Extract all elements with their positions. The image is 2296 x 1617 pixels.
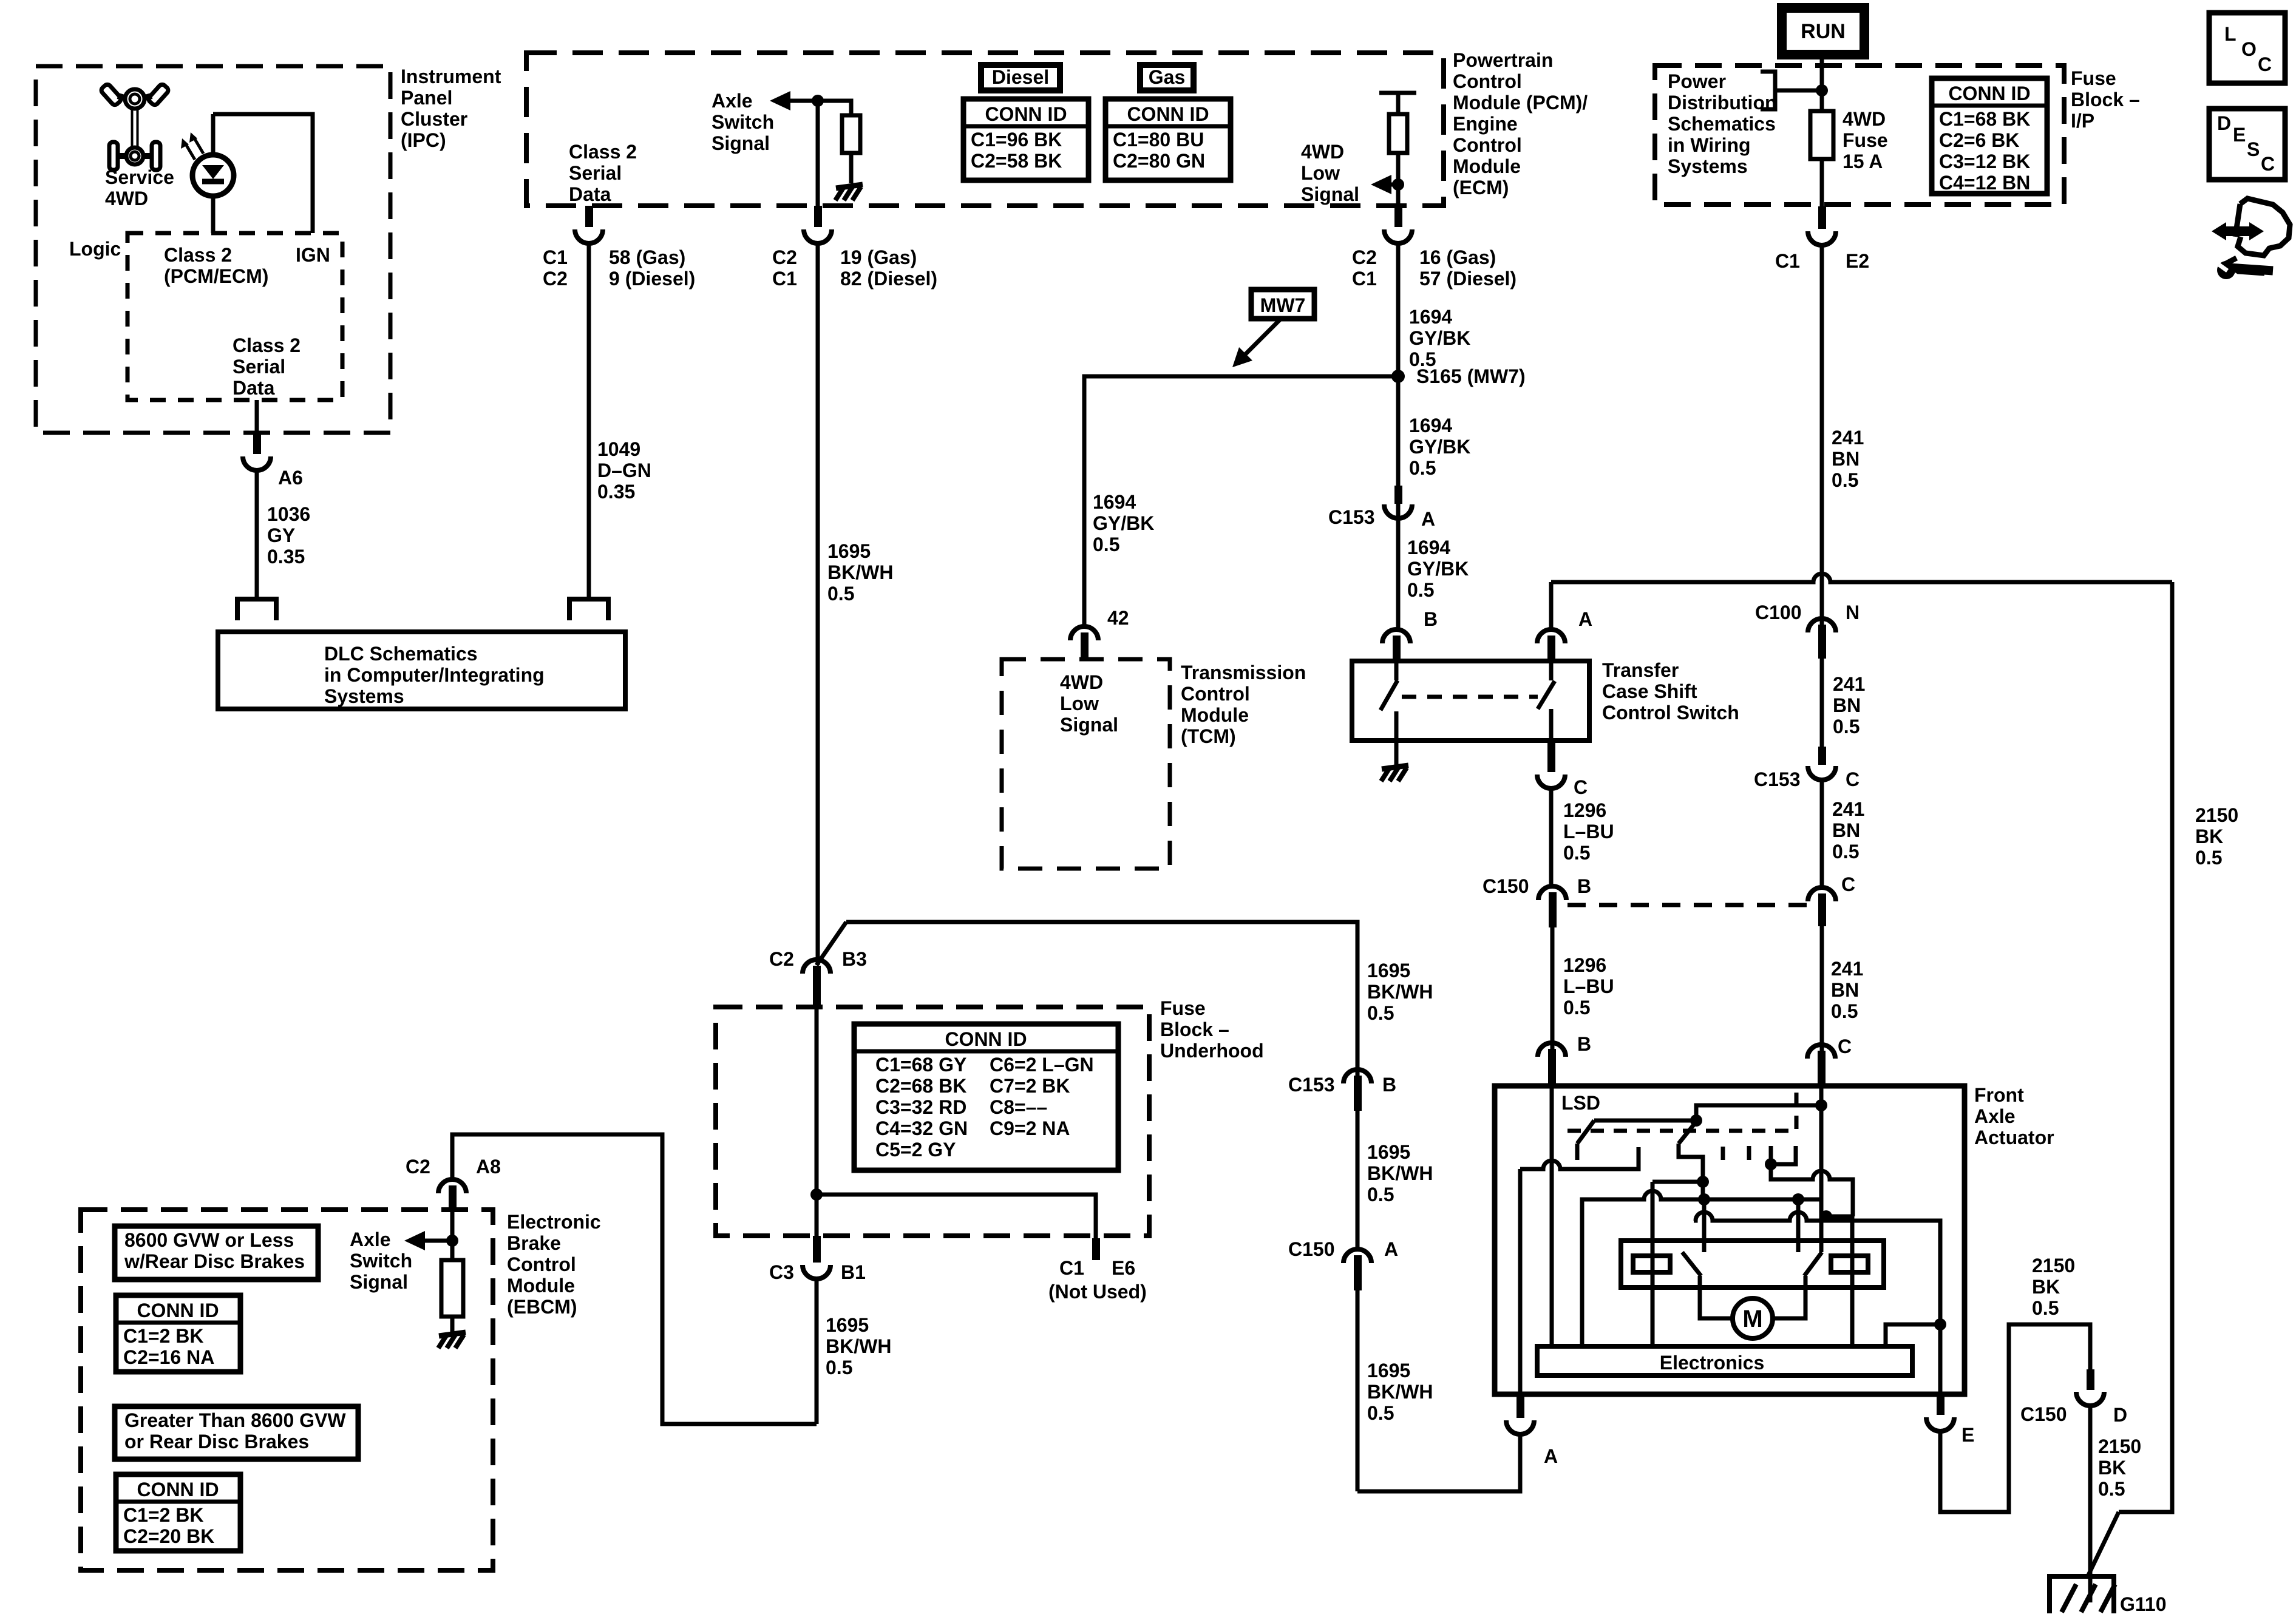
- LOC reference box: [2209, 13, 2285, 83]
- ground transfer case switch: [1381, 765, 1408, 781]
- switch left lower contact to ground: [1394, 711, 1399, 765]
- svg-text:E: E: [2233, 124, 2246, 146]
- svg-text:N: N: [1846, 602, 1860, 623]
- svg-text:B3: B3: [842, 948, 867, 970]
- svg-text:S165 (MW7): S165 (MW7): [1416, 365, 1526, 387]
- arrowhead Axle Switch Signal: [770, 91, 790, 110]
- svg-text:C3: C3: [769, 1261, 794, 1283]
- splice S165 (MW7): [1391, 370, 1405, 383]
- svg-text:9 (Diesel): 9 (Diesel): [609, 268, 695, 290]
- svg-text:C: C: [1841, 873, 1855, 895]
- connector B3 stub: [813, 966, 821, 1007]
- switch left blade: [1381, 680, 1398, 710]
- junction H2 right stub: [1792, 1193, 1804, 1205]
- connector C150 terminal C: [1808, 887, 1836, 901]
- connector C153 terminal A: [1384, 504, 1412, 518]
- svg-text:19 (Gas): 19 (Gas): [840, 246, 917, 268]
- DESC reference box: [2209, 109, 2285, 180]
- connector C150 terminal D: [2076, 1392, 2104, 1406]
- actuator C branch to LSD: [1696, 1105, 1821, 1120]
- svg-text:82 (Diesel): 82 (Diesel): [840, 268, 937, 290]
- junction coil2 feed: [1820, 1210, 1832, 1222]
- svg-text:CONN ID: CONN ID: [137, 1300, 219, 1321]
- svg-text:C2: C2: [772, 246, 797, 268]
- wire E branch to electronics: [1886, 1324, 1940, 1346]
- svg-text:4WDFuse15 A: 4WDFuse15 A: [1843, 108, 1888, 172]
- arrowhead 4WD Low Signal: [1371, 175, 1391, 194]
- wire EBCM resistor to ground: [450, 1317, 455, 1332]
- svg-text:C153: C153: [1754, 768, 1801, 790]
- svg-text:E6: E6: [1112, 1257, 1135, 1279]
- LED indicator circle: [192, 155, 234, 196]
- svg-text:C153: C153: [1288, 1074, 1335, 1096]
- svg-text:LSD: LSD: [1561, 1092, 1600, 1114]
- wire H2 electronics feed (hop over coil1): [1582, 1191, 1821, 1346]
- connector A6: [243, 456, 271, 470]
- wire 2150 BK from E: [1940, 1324, 2090, 1512]
- wire S165 branch to TCM: [1084, 376, 1398, 626]
- svg-text:C2: C2: [543, 268, 568, 290]
- wire resistor to ground (PCM): [849, 153, 854, 183]
- svg-text:B: B: [1424, 608, 1438, 630]
- switch right contact upper: [1549, 661, 1554, 680]
- wire 1694 GY/BK to switch B: [1396, 518, 1401, 629]
- svg-text:C1: C1: [1352, 268, 1377, 290]
- svg-text:O: O: [2241, 38, 2257, 60]
- svg-text:CONN ID: CONN ID: [1948, 83, 2030, 104]
- ground G110 symbol: [2050, 1576, 2115, 1613]
- connector PCM C1 pin 58: [575, 229, 603, 243]
- svg-text:S: S: [2247, 138, 2260, 160]
- actuator inner relay box: [1621, 1241, 1884, 1287]
- Front Axle Actuator box: [1495, 1086, 1965, 1394]
- DLC terminal left: [237, 599, 276, 620]
- svg-text:D: D: [2217, 112, 2231, 134]
- connector TCM 42 stub: [1081, 632, 1089, 659]
- junction axle switch signal: [812, 95, 824, 107]
- svg-text:C: C: [1574, 776, 1588, 798]
- wire 241 BN to actuator C: [1820, 926, 1824, 1056]
- motor M circle: [1733, 1298, 1773, 1338]
- svg-text:CONN ID: CONN ID: [1127, 103, 1209, 125]
- LSD blade 2: [1679, 1122, 1696, 1144]
- actuator wire B internal: [1550, 1086, 1554, 1346]
- LSD contact stub b: [1747, 1146, 1751, 1160]
- svg-text:C1=2 BKC2=16 NA: C1=2 BKC2=16 NA: [123, 1325, 214, 1368]
- svg-text:C1=2 BKC2=20 BK: C1=2 BKC2=20 BK: [123, 1504, 214, 1547]
- wire 1694 GY/BK from PCM to S165: [1396, 243, 1401, 581]
- DLC Schematics box: [218, 632, 625, 709]
- svg-text:B: B: [1577, 875, 1591, 897]
- svg-text:C: C: [2261, 153, 2275, 175]
- actuator internal stub right: [1796, 1199, 1801, 1252]
- svg-text:C2: C2: [406, 1156, 430, 1178]
- svg-text:CONN ID: CONN ID: [945, 1028, 1027, 1050]
- connector switch terminal C: [1537, 775, 1565, 788]
- junction H2 left stub: [1698, 1193, 1710, 1205]
- svg-text:C2: C2: [1352, 246, 1377, 268]
- junction blade2-coil1: [1697, 1176, 1709, 1188]
- wire LED anode to IGN top rail: [211, 114, 216, 155]
- wire H1 axle switch signal (hop over B): [1520, 1147, 1639, 1169]
- junction 4WD low arrow: [1392, 178, 1404, 191]
- svg-text:Logic: Logic: [69, 238, 121, 260]
- connector C150 dashed link: [1567, 903, 1807, 907]
- connector B1 stub: [813, 1236, 821, 1263]
- LSD right contact stub 1: [1769, 1146, 1773, 1164]
- connector actuator B stub: [1548, 1049, 1556, 1086]
- svg-text:B: B: [1382, 1074, 1396, 1096]
- wire 1695 actuator A return: [1357, 1434, 1520, 1491]
- svg-text:L: L: [2224, 23, 2237, 45]
- connector fuse block C1 E2: [1808, 231, 1836, 245]
- CONN ID table Fuse Block I/P: [1932, 78, 2047, 194]
- relay switch blade left: [1682, 1252, 1701, 1276]
- wire 4WD low arrow: [1391, 183, 1398, 187]
- LSD blade2 path to coil1: [1679, 1144, 1703, 1199]
- connector switch terminal A: [1537, 629, 1565, 643]
- Transmission Control Module dashed box: [1002, 659, 1170, 869]
- svg-text:C1: C1: [543, 246, 568, 268]
- wire IGN top rail: [213, 114, 313, 233]
- RUN box: [1782, 8, 1864, 55]
- connector C153 terminal C: [1808, 766, 1836, 780]
- LSD common bar: [1594, 1119, 1696, 1123]
- junction RUN feed: [1816, 84, 1828, 97]
- svg-text:C150: C150: [2020, 1403, 2067, 1425]
- hand with arrow and wrench icon: [2212, 198, 2290, 279]
- wire LSD right contact to coil2 (hop over C): [1771, 1164, 1853, 1216]
- ground PCM axle switch: [835, 185, 863, 200]
- connector actuator terminal C: [1807, 1045, 1835, 1059]
- wire blade2-coil1 link: [1652, 1180, 1703, 1184]
- connector C150 D stub: [2087, 1369, 2094, 1390]
- LSD contact stub a: [1721, 1147, 1725, 1160]
- LSD blade 1: [1577, 1120, 1594, 1144]
- wire 241 BN from fuse block: [1820, 245, 1824, 629]
- connector actuator terminal A: [1506, 1420, 1534, 1434]
- connector actuator terminal B: [1538, 1043, 1566, 1057]
- wire RUN to fuse: [1820, 55, 1824, 111]
- Power Distribution dashed box: [1655, 66, 2064, 205]
- svg-text:58 (Gas): 58 (Gas): [609, 246, 685, 268]
- wire switch A feed with hop at C100: [1551, 574, 2172, 582]
- IPC Logic dashed box: [127, 233, 342, 400]
- connector C150 C stub: [1818, 893, 1826, 926]
- switch left contact upper: [1394, 661, 1399, 680]
- wire internal connector row (hop over left stub): [1694, 1212, 1940, 1393]
- svg-text:C150: C150: [1288, 1238, 1335, 1260]
- Greater Than 8600 GVW box: [115, 1406, 358, 1459]
- CONN ID table EBCM 2: [116, 1474, 240, 1551]
- switch right lower contact: [1549, 709, 1554, 742]
- svg-text:57 (Diesel): 57 (Diesel): [1419, 268, 1517, 290]
- connector C153 C stub: [1818, 747, 1826, 765]
- svg-text:MW7: MW7: [1260, 294, 1306, 316]
- LED diode triangle: [202, 165, 224, 179]
- svg-text:A: A: [1421, 508, 1435, 530]
- svg-text:C1: C1: [1775, 250, 1800, 272]
- wire EBCM internal: [450, 1211, 455, 1260]
- svg-text:A6: A6: [278, 467, 303, 489]
- relay switch blade right: [1804, 1252, 1822, 1276]
- wire V1 to bottom connector A: [1518, 1169, 1523, 1396]
- svg-text:16 (Gas): 16 (Gas): [1419, 246, 1496, 268]
- connector actuator E stub: [1937, 1393, 1944, 1415]
- connector C100 terminal N: [1808, 619, 1836, 632]
- svg-text:C1=68 GYC2=68 BKC3=32 RDC4=32: C1=68 GYC2=68 BKC3=32 RDC4=32 GNC5=2 GY: [875, 1054, 968, 1161]
- MW7 box: [1251, 290, 1314, 319]
- wire coil1 vertical: [1651, 1182, 1655, 1348]
- Fuse Block Underhood dashed box: [716, 1007, 1149, 1236]
- fuse 4WD 15A: [1810, 111, 1833, 159]
- connector actuator A stub: [1517, 1394, 1524, 1418]
- resistor PCM axle switch pull-up: [842, 115, 860, 153]
- junction E wire: [1934, 1318, 1946, 1331]
- wire 2150 BK to G110: [2088, 1406, 2093, 1602]
- wire B3 diagonal: [817, 922, 846, 965]
- svg-text:C: C: [1846, 768, 1860, 790]
- svg-text:C1: C1: [1059, 1257, 1084, 1279]
- connector C150 terminal B: [1538, 886, 1566, 900]
- wire LED cathode to logic box: [211, 196, 216, 233]
- wire 1296 L-BU lower: [1550, 927, 1555, 1054]
- svg-text:C: C: [2258, 53, 2272, 75]
- connector actuator terminal E: [1926, 1417, 1954, 1431]
- connector C150 A stub: [1354, 1255, 1362, 1290]
- svg-text:M: M: [1742, 1306, 1762, 1332]
- svg-text:B: B: [1577, 1033, 1591, 1055]
- svg-text:42: 42: [1107, 607, 1129, 629]
- svg-text:A: A: [1544, 1445, 1558, 1467]
- wire 1296 L-BU upper: [1549, 788, 1554, 886]
- connector fuse block B1: [803, 1265, 830, 1279]
- junction underhood E6 branch: [810, 1188, 823, 1201]
- LED cathode bar: [202, 179, 224, 185]
- wire diagonal into G110: [2087, 1512, 2119, 1578]
- svg-text:C153: C153: [1328, 506, 1375, 528]
- wire fuse to C1/E2: [1820, 159, 1824, 209]
- connector pin 16 stub: [1394, 206, 1402, 227]
- svg-text:B1: B1: [841, 1261, 866, 1283]
- connector actuator C stub: [1818, 1051, 1826, 1086]
- connector EBCM A8 stub: [449, 1185, 457, 1211]
- relay blade right drop: [1773, 1276, 1805, 1318]
- wire switch A drop: [1549, 582, 1554, 629]
- connector C1/E2 stub: [1818, 206, 1826, 229]
- LED light arrows (lightning): [181, 132, 203, 160]
- svg-text:8600 GVW or Lessw/Rear Disc Br: 8600 GVW or Lessw/Rear Disc Brakes: [124, 1229, 305, 1272]
- Electronics box: [1537, 1346, 1912, 1375]
- connector C153 B stub: [1354, 1076, 1362, 1111]
- connector EBCM terminal A8: [438, 1179, 466, 1193]
- wire 1695 BK/WH from PCM: [816, 243, 820, 965]
- svg-text:IGN: IGN: [296, 244, 330, 266]
- svg-text:E2: E2: [1846, 250, 1869, 272]
- DLC terminal right: [569, 599, 608, 620]
- svg-text:C150: C150: [1483, 875, 1529, 897]
- 8600 GVW or Less box: [115, 1226, 318, 1280]
- switch linkage dashed: [1402, 695, 1538, 699]
- svg-text:C1=96 BKC2=58 BK: C1=96 BKC2=58 BK: [971, 129, 1062, 172]
- junction LSD common: [1690, 1114, 1702, 1127]
- svg-text:CONN ID: CONN ID: [137, 1479, 219, 1500]
- svg-text:C: C: [1838, 1036, 1852, 1057]
- resistor EBCM axle switch: [441, 1260, 463, 1317]
- LSD linkage dashed line: [1567, 1091, 1796, 1131]
- connector C100 N stub: [1818, 625, 1826, 659]
- bracket to RUN wire: [1775, 89, 1821, 93]
- resistor PCM 4WD low pull-up: [1389, 114, 1407, 153]
- wire coil2 vertical: [1850, 1216, 1855, 1348]
- actuator wire C internal: [1819, 1086, 1824, 1252]
- wire underhood to E6: [817, 1195, 1096, 1240]
- connector C150 terminal A: [1343, 1249, 1371, 1263]
- connector fuse block B3: [803, 960, 830, 974]
- connector switch B stub: [1393, 636, 1401, 661]
- connector switch C stub: [1547, 741, 1555, 772]
- actuator internal stub left: [1702, 1199, 1707, 1252]
- svg-text:Electronics: Electronics: [1660, 1352, 1765, 1374]
- wire 1049 D-GN: [587, 243, 591, 599]
- connector pin 58 stub: [585, 206, 593, 227]
- coil 2: [1831, 1256, 1868, 1272]
- relay blade left drop: [1700, 1276, 1733, 1318]
- Electronic Brake Control Module dashed box: [81, 1210, 493, 1570]
- connector pin 19 stub: [814, 206, 822, 227]
- connector C150 B stub: [1549, 892, 1557, 927]
- svg-text:C1: C1: [772, 268, 797, 290]
- wire 1695 C153B to C150A: [1356, 1097, 1360, 1252]
- wire 241 BN C100 to C153: [1820, 659, 1824, 748]
- connector C153 A stub: [1394, 486, 1402, 504]
- wire right ground run: [2119, 582, 2172, 1512]
- svg-text:C2: C2: [769, 948, 794, 970]
- svg-text:G110: G110: [2120, 1593, 2167, 1615]
- svg-text:C1=68 BKC2=6 BKC3=12 BKC4=12 B: C1=68 BKC2=6 BKC3=12 BKC4=12 BN: [1939, 108, 2030, 194]
- svg-text:A: A: [1384, 1238, 1398, 1260]
- LSD blade1 contact stub: [1575, 1144, 1580, 1160]
- svg-text:Gas: Gas: [1149, 66, 1185, 88]
- wire underhood B3 to B1: [815, 1007, 819, 1255]
- ground EBCM: [438, 1332, 466, 1348]
- svg-text:Diesel: Diesel: [992, 66, 1049, 88]
- svg-text:C1=80 BUC2=80 GN: C1=80 BUC2=80 GN: [1113, 129, 1205, 172]
- connector TCM pin 42: [1070, 626, 1098, 640]
- MW7 arrow: [1240, 317, 1282, 360]
- wire 1036 GY: [255, 470, 259, 599]
- wire 1695 C150A down: [1356, 1290, 1360, 1491]
- CONN ID table Diesel: [963, 99, 1089, 180]
- svg-text:A8: A8: [476, 1156, 501, 1178]
- svg-text:E: E: [1961, 1424, 1974, 1446]
- connector switch terminal B: [1382, 629, 1410, 643]
- wire 241 BN C153 to C150: [1820, 780, 1824, 887]
- Gas label box: [1140, 65, 1194, 90]
- svg-text:(Not Used): (Not Used): [1048, 1281, 1147, 1303]
- junction LSD right contact: [1765, 1158, 1777, 1170]
- connector pin A6 stub: [253, 433, 261, 454]
- Transfer Case Shift Control Switch box: [1352, 661, 1589, 741]
- CONN ID table Underhood: [854, 1024, 1118, 1170]
- wire EBCM axle switch arrow: [425, 1239, 452, 1243]
- connector E6 stub: [1092, 1238, 1100, 1260]
- wire class2 serial data to A6: [255, 400, 259, 435]
- connector C153 terminal B: [1343, 1070, 1371, 1083]
- coil 1: [1633, 1256, 1670, 1272]
- wire coil2 feed: [1821, 1215, 1853, 1219]
- CONN ID table Gas: [1106, 99, 1231, 180]
- LSD right contact bridge: [1771, 1146, 1796, 1164]
- wire EBCM A8 loop: [452, 1134, 817, 1424]
- junction actuator C branch: [1815, 1099, 1827, 1111]
- connector switch A stub: [1547, 636, 1555, 661]
- svg-text:RUN: RUN: [1801, 20, 1846, 43]
- bracket power distribution: [1761, 72, 1775, 109]
- wire 4WD low internal top bar: [1379, 91, 1416, 95]
- wire 1695 B1 down: [815, 1279, 819, 1424]
- connector PCM C2 pin 19: [804, 229, 832, 243]
- junction EBCM axle switch: [446, 1235, 458, 1247]
- Instrument Panel Cluster (IPC) dashed box: [36, 66, 390, 433]
- arrowhead Axle Switch Signal EBCM: [404, 1231, 425, 1250]
- svg-text:CONN ID: CONN ID: [985, 103, 1067, 125]
- svg-text:C100: C100: [1755, 602, 1802, 623]
- CONN ID table EBCM 1: [116, 1295, 240, 1372]
- svg-text:D: D: [2113, 1404, 2127, 1426]
- Service 4WD drivetrain icon: [100, 83, 170, 170]
- wire axle switch signal internal: [790, 101, 851, 115]
- wire switch B feed: [846, 922, 1357, 1241]
- wire 4WD low internal: [1396, 93, 1401, 208]
- connector PCM C2 pin 16: [1384, 229, 1412, 243]
- wire axle switch signal to C2 pin 19: [816, 101, 820, 208]
- Diesel label box: [981, 65, 1060, 90]
- Powertrain Control Module dashed box: [526, 53, 1444, 206]
- switch right blade: [1538, 681, 1555, 709]
- svg-text:A: A: [1578, 608, 1592, 630]
